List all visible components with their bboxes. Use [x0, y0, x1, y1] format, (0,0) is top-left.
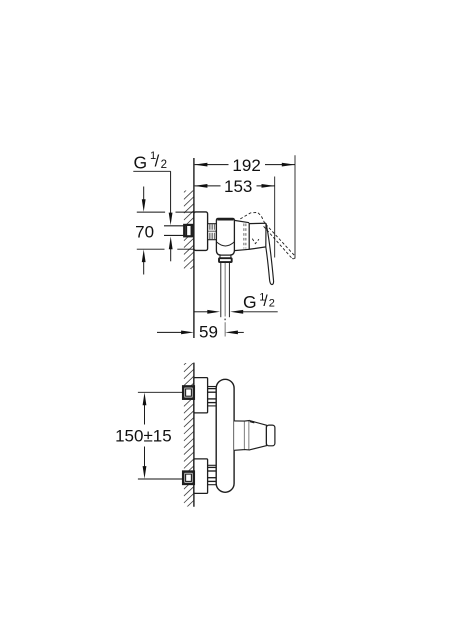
cartridge cone: [234, 220, 249, 250]
svg-text:G: G: [134, 152, 148, 172]
svg-text:153: 153: [224, 177, 252, 196]
wall hatching (upper view): [184, 183, 194, 276]
upper wall escutcheon (lower view): [194, 378, 208, 413]
inlet supply pipe (behind wall): [164, 226, 194, 236]
handle raised position (dashed): [240, 212, 295, 258]
S-union ribbed connector (upper view): [208, 224, 217, 240]
lower wall escutcheon (lower view): [194, 459, 208, 494]
lower S-union ribs (lower view): [208, 465, 217, 484]
dimension 70: [137, 187, 194, 275]
svg-text:192: 192: [232, 156, 260, 175]
svg-text:G: G: [243, 292, 257, 312]
wall face line (lower view): [193, 363, 195, 507]
inlet union nut: [184, 224, 193, 237]
handle base (lower view): [234, 421, 244, 450]
wall face line (upper view): [193, 158, 195, 338]
svg-text:/: /: [263, 293, 268, 310]
dimension 153: [194, 177, 275, 258]
wall hatching (lower view): [184, 355, 194, 510]
handle grip cone (lower view): [249, 421, 266, 450]
upper S-union ribs (lower view): [208, 387, 217, 406]
svg-text:150±15: 150±15: [115, 427, 172, 446]
shower hose outlet pipe: [221, 263, 230, 318]
mixer body capsule (lower view): [216, 379, 234, 492]
outlet axis centre line: [224, 263, 226, 337]
dimension 150±15: [138, 392, 183, 479]
lever blade (solid position): [266, 223, 274, 284]
svg-text:70: 70: [135, 222, 154, 241]
outlet neck and collar nut: [220, 255, 231, 258]
svg-text:2: 2: [269, 297, 275, 309]
grip cone shading line (lower view): [250, 421, 255, 422]
lower union nut: [183, 472, 194, 484]
svg-text:/: /: [155, 153, 160, 171]
wall escutcheon (upper view): [194, 212, 208, 251]
svg-text:2: 2: [161, 159, 167, 171]
handle grip end cap (lower view): [266, 425, 275, 446]
hidden ring lines (dashed): [244, 224, 246, 249]
mixer body (upper view): [216, 218, 234, 255]
handle base (solid): [249, 223, 266, 249]
dimension 59: [157, 331, 244, 335]
upper union nut: [183, 386, 194, 398]
dimension 192: [194, 155, 295, 258]
svg-text:59: 59: [199, 323, 218, 342]
